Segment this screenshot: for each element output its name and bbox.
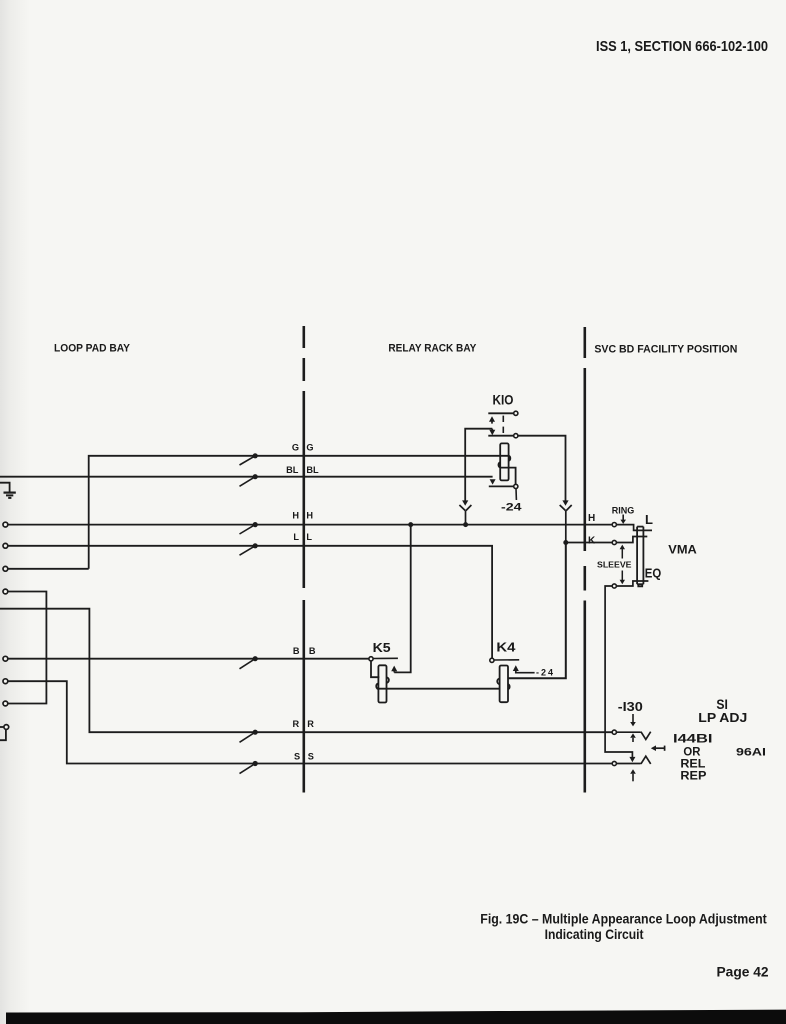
wire K5 coil to K4 coil <box>377 688 500 690</box>
wire from K10 make contact to plug P2 <box>518 436 566 501</box>
svg-text:R: R <box>307 719 314 729</box>
jack A symbol (inverted V) <box>641 756 651 764</box>
K10 winding terminal circle <box>514 484 518 488</box>
lever on wire G <box>240 456 256 465</box>
relay K10 coil <box>498 443 515 484</box>
svg-text:H: H <box>292 511 299 521</box>
junction dot H/K5 <box>408 522 413 527</box>
svg-text:RELAY RACK BAY: RELAY RACK BAY <box>388 343 477 355</box>
RING arrow (down) <box>622 515 624 521</box>
junction dot J2/K <box>563 540 568 545</box>
wire from K10 armature to plug P1 <box>465 429 492 501</box>
wire H into plug tip <box>616 525 652 531</box>
svg-text:L: L <box>645 512 653 527</box>
SLEEVE dimension arrows <box>621 548 623 582</box>
wire S <box>8 681 613 763</box>
ground <box>4 493 16 498</box>
bay boundary dashed line (relay rack / svc bd) <box>583 327 586 793</box>
svg-text:BL: BL <box>306 465 319 475</box>
svg-text:B: B <box>309 646 316 656</box>
lever on wire B <box>240 659 256 669</box>
VMA plug body <box>637 527 643 587</box>
svg-text:Fig. 19C – Multiple Appearance: Fig. 19C – Multiple Appearance Loop Adju… <box>480 912 767 927</box>
svg-text:B: B <box>293 646 300 656</box>
K5 armature arrow (up) <box>391 666 397 672</box>
svg-text:ISS 1, SECTION 666-102-100: ISS 1, SECTION 666-102-100 <box>596 38 768 55</box>
terminal t3 <box>3 566 8 571</box>
jack circle R <box>612 730 616 734</box>
cross-connect levers and junction dots on bay wires <box>240 453 258 773</box>
plug arrow P1 (down) <box>462 500 468 505</box>
svg-text:SLEEVE: SLEEVE <box>597 560 632 570</box>
lever on wire R <box>240 732 256 742</box>
wire t4 to t5 loop <box>8 592 47 704</box>
svg-text:H: H <box>588 513 595 524</box>
arrow pointing left (loop adj) <box>653 747 665 749</box>
svg-text:S: S <box>294 751 300 761</box>
svg-text:K: K <box>588 535 596 546</box>
svg-text:VMA: VMA <box>668 543 697 557</box>
wires: main horizontal/vertical runs <box>0 456 612 764</box>
terminal t5 <box>3 701 8 706</box>
K10 operate dashed link <box>502 416 504 422</box>
K4 contact line <box>494 659 519 661</box>
K5 coil lead from contact circle <box>371 661 379 677</box>
sleeve wire into plug <box>616 581 648 586</box>
svg-text:L: L <box>293 532 299 542</box>
lever on wire S <box>240 764 256 774</box>
wire from left edge to vertical of wire R <box>0 609 612 733</box>
svg-text:BL: BL <box>286 465 299 475</box>
svg-text:SI: SI <box>716 697 728 712</box>
jack J1 on wire H <box>459 505 471 525</box>
wire K into plug ring <box>616 537 647 543</box>
wire S to jack <box>616 763 640 765</box>
wire name labels at first boundary <box>286 443 319 762</box>
bottom scan bar <box>6 1010 786 1024</box>
K10 break armature arrow (up) <box>489 416 495 423</box>
K5 contact line <box>373 657 398 659</box>
terminal t1 (H) <box>3 522 8 527</box>
terminal t7 stub <box>0 726 4 728</box>
K4 armature arrow (up) with -24 battery stub <box>513 665 519 671</box>
svg-text:-24: -24 <box>536 667 555 677</box>
up arrow below wire S <box>630 769 636 773</box>
plug arrow P2 (down) <box>562 500 568 505</box>
svg-text:G: G <box>292 443 299 453</box>
wire L <box>8 546 493 658</box>
terminal t7 <box>4 725 9 730</box>
relay K4 coil <box>497 666 509 703</box>
svg-text:H: H <box>306 511 313 521</box>
relay K5 coil <box>376 665 389 702</box>
wire H <box>8 524 613 526</box>
terminal t4 <box>3 589 8 594</box>
sleeve wire down to wire S <box>605 586 632 757</box>
wire K <box>566 542 612 544</box>
wire B <box>8 658 370 660</box>
jack circle sleeve <box>612 584 616 588</box>
svg-text:RING: RING <box>612 505 635 515</box>
K4 contact terminal circle <box>490 658 494 662</box>
svg-text:G: G <box>306 443 313 453</box>
terminal t6 (S) <box>3 679 8 684</box>
svg-text:LP ADJ: LP ADJ <box>698 711 747 725</box>
relay K10 break contact <box>488 412 514 414</box>
wire G <box>89 456 509 569</box>
up arrow under wire R <box>630 733 636 737</box>
svg-text:EQ: EQ <box>645 566 662 581</box>
svg-text:R: R <box>293 719 300 729</box>
BL armature arrow (down) onto -24 contact <box>490 479 496 484</box>
lever on wire H <box>240 525 256 534</box>
svg-text:S: S <box>308 751 314 761</box>
jack circle S <box>612 761 616 765</box>
svg-text:96AI: 96AI <box>736 746 766 758</box>
K10 make contact <box>488 435 514 437</box>
junction dot J1/H <box>463 522 468 527</box>
plug arrow onto wire S <box>629 757 635 762</box>
wire from K junction down to K4 coil (-24 feed) <box>508 543 566 679</box>
svg-text:LOOP PAD BAY: LOOP PAD BAY <box>54 343 131 355</box>
svg-text:Indicating Circuit: Indicating Circuit <box>545 927 644 942</box>
wire H to K5 armature vertical <box>394 525 411 673</box>
svg-text:-I30: -I30 <box>618 700 643 714</box>
svg-text:Page 42: Page 42 <box>717 964 769 979</box>
svg-text:K5: K5 <box>373 641 391 655</box>
jack V symbol <box>641 732 651 740</box>
svg-text:K4: K4 <box>496 641 515 655</box>
ground lead <box>0 483 10 492</box>
-24 contact line under BL arrow <box>489 485 514 487</box>
wire R to jack V <box>616 731 640 733</box>
terminal t2 (L) <box>3 543 8 548</box>
-130 arrow (down) <box>632 714 634 723</box>
lever on wire L <box>240 546 256 555</box>
left edge terminals <box>3 522 9 729</box>
bay boundary dashed line (loop pad / relay rack) <box>302 326 305 793</box>
svg-text:-24: -24 <box>501 502 523 514</box>
wire BL <box>0 476 493 478</box>
svg-text:KIO: KIO <box>493 393 514 409</box>
K5 contact terminal circle <box>369 657 373 661</box>
jack circle K <box>612 540 616 544</box>
lead from winding circle down to -24 <box>515 488 517 500</box>
terminal t8 (B) <box>3 656 8 661</box>
K10 make armature arrow (down) <box>489 429 495 436</box>
svg-text:L: L <box>306 532 312 542</box>
lever on wire BL <box>240 477 256 487</box>
jack J2 <box>560 505 572 543</box>
svg-text:SVC BD FACILITY POSITION: SVC BD FACILITY POSITION <box>594 344 737 356</box>
wire to terminal t3 <box>8 568 89 570</box>
jack circle H <box>612 523 616 527</box>
svg-text:REP: REP <box>680 768 706 782</box>
